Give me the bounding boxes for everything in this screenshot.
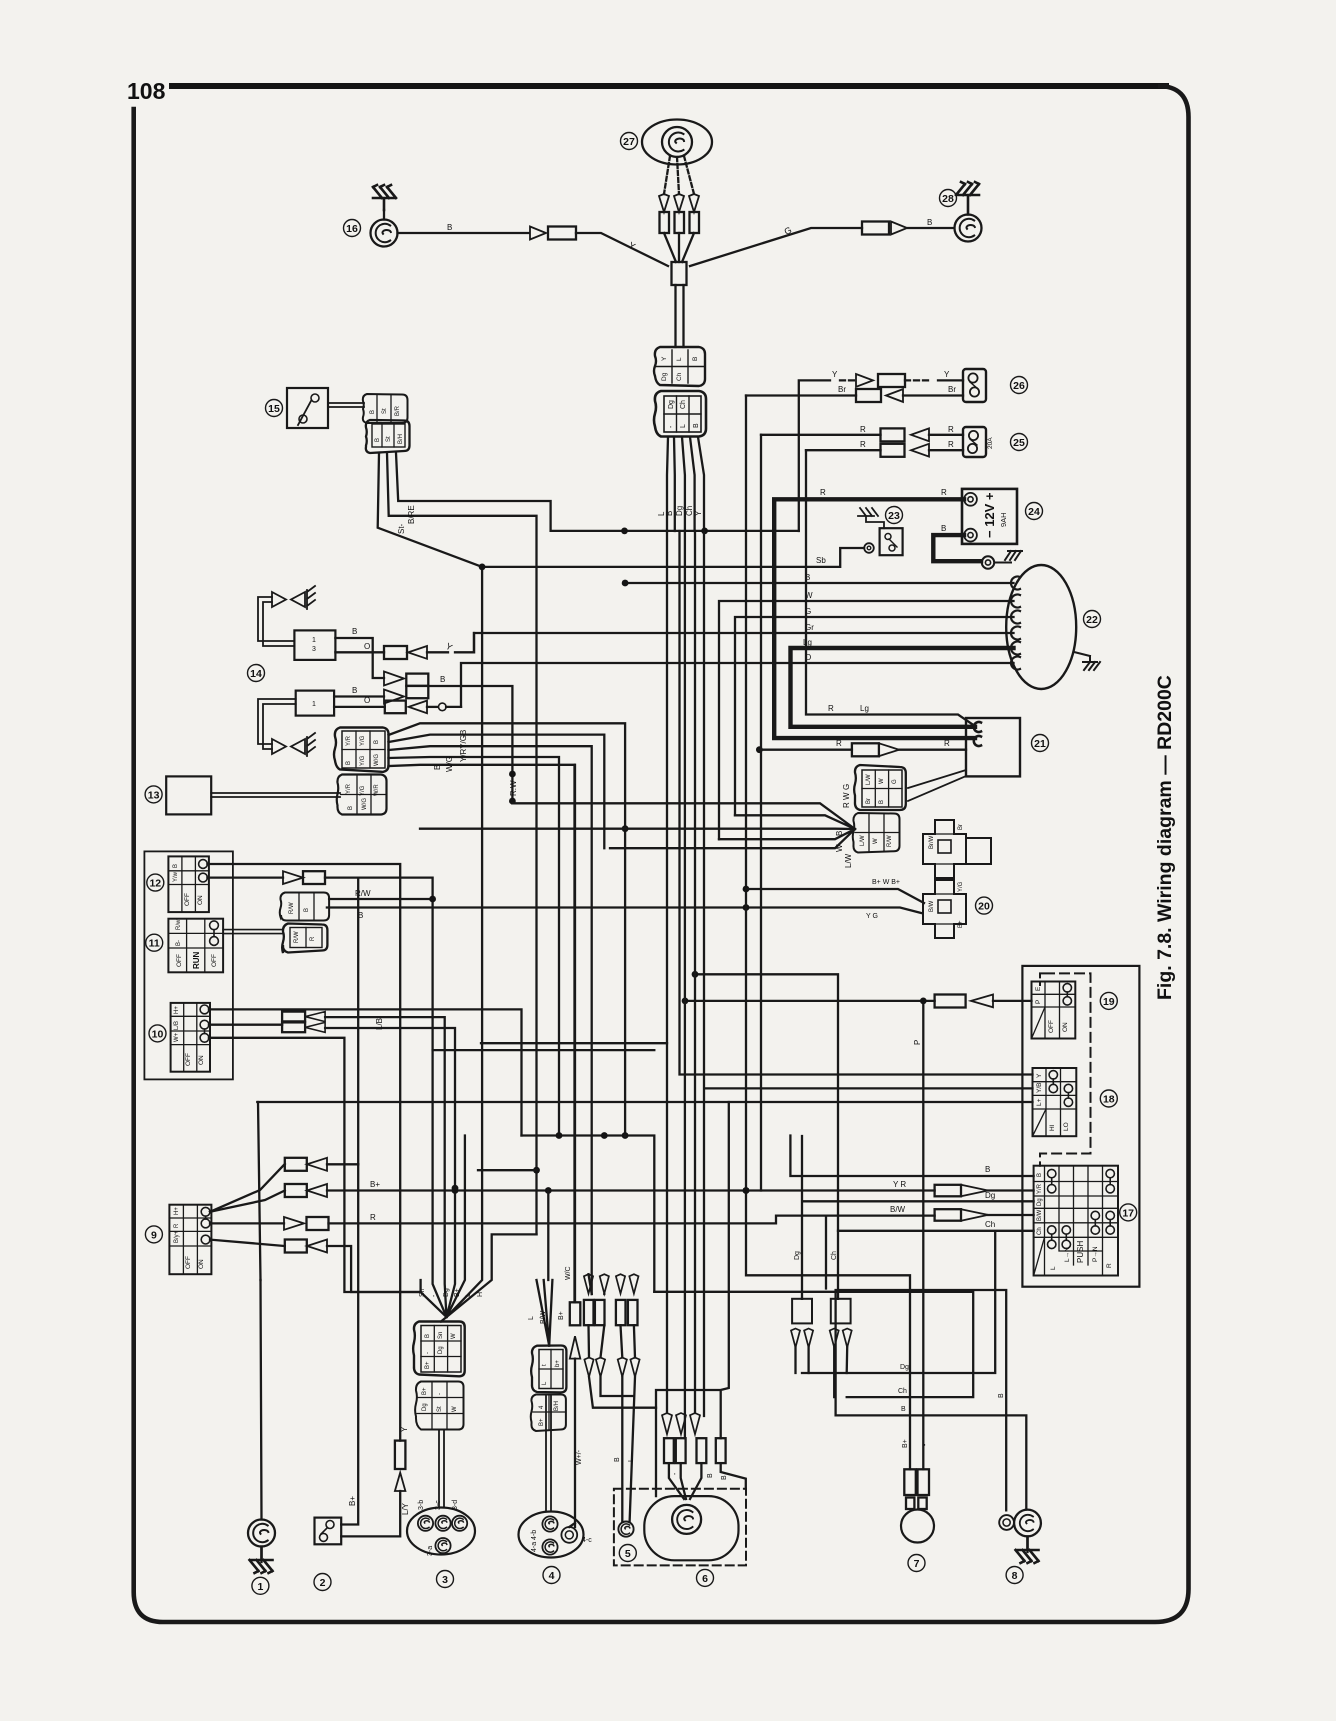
magneto lighting wire to dimmer lo bbox=[257, 1101, 1032, 1103]
svg-text:L: L bbox=[1050, 1266, 1057, 1270]
svg-text:t: t bbox=[542, 1364, 548, 1366]
svg-text:Y: Y bbox=[444, 641, 454, 653]
svg-text:Br/W: Br/W bbox=[929, 835, 935, 849]
svg-text:OFF: OFF bbox=[184, 893, 191, 906]
svg-text:B: B bbox=[352, 686, 357, 695]
svg-text:W: W bbox=[879, 778, 885, 784]
lighting switch 19 bbox=[1032, 982, 1076, 1039]
14 box2 bracket to ground bbox=[258, 699, 315, 756]
svg-text:4: 4 bbox=[539, 1405, 545, 1409]
svg-text:Y/RY/GB: Y/RY/GB bbox=[459, 730, 468, 762]
svg-text:B/R: B/R bbox=[395, 405, 401, 416]
svg-text:8: 8 bbox=[1012, 1570, 1018, 1582]
svg-text:ON: ON bbox=[198, 1055, 205, 1065]
9 row1 tap on B+ line bbox=[357, 1163, 359, 1165]
svg-text:-: - bbox=[437, 1393, 443, 1395]
svg-text:Y: Y bbox=[1036, 1073, 1043, 1078]
svg-text:W/C: W/C bbox=[565, 1266, 572, 1280]
svg-text:L→N: L→N bbox=[1064, 1247, 1071, 1262]
connector T1 at 15 bbox=[363, 394, 408, 423]
svg-text:W+: W+ bbox=[174, 1032, 180, 1042]
9 connector row3 R bbox=[210, 1205, 935, 1230]
22 row wires: B W G Gr Lg O bbox=[461, 573, 1014, 839]
4 fan bbox=[528, 1191, 565, 1346]
svg-text:B+: B+ bbox=[902, 1439, 909, 1448]
svg-text:Br: Br bbox=[838, 385, 846, 394]
svg-text:OFF: OFF bbox=[1048, 1020, 1055, 1033]
tail harness Dg fuse bbox=[791, 1251, 813, 1373]
wire Ch tap to 17 bbox=[692, 971, 1034, 1231]
svg-text:1: 1 bbox=[257, 1581, 263, 1593]
flasher indicator fuse line Y to 26 bbox=[799, 370, 963, 531]
svg-text:OFF: OFF bbox=[185, 1256, 192, 1269]
svg-text:L/B: L/B bbox=[375, 1018, 384, 1030]
svg-text:Y/G: Y/G bbox=[958, 881, 964, 892]
svg-text:108: 108 bbox=[127, 78, 166, 104]
border frame bbox=[134, 86, 1189, 1622]
svg-text:ON: ON bbox=[1062, 1022, 1069, 1032]
svg-text:B/RE: B/RE bbox=[407, 505, 416, 524]
fan labels above 3 bbox=[419, 1288, 484, 1297]
fuse holder 25 bbox=[963, 427, 994, 457]
svg-text:16: 16 bbox=[346, 223, 358, 235]
svg-text:W: W bbox=[835, 844, 844, 852]
fuse line R2 to 25 bbox=[806, 440, 963, 457]
fan convergence into 3 upper connector bbox=[421, 1280, 447, 1322]
svg-text:R/W: R/W bbox=[289, 902, 295, 914]
dimmer switch 18 bbox=[1033, 1068, 1077, 1136]
svg-text:St: St bbox=[437, 1406, 443, 1412]
bullet pairs above 5/6 bbox=[584, 1274, 639, 1325]
svg-text:B+: B+ bbox=[454, 1288, 461, 1297]
svg-text:G: G bbox=[892, 779, 898, 784]
wire Dg tap to 19 fuse bbox=[682, 995, 1032, 1008]
svg-text:Dg: Dg bbox=[438, 1346, 444, 1354]
svg-text:3: 3 bbox=[442, 1574, 448, 1586]
svg-text:H+: H+ bbox=[174, 1207, 180, 1215]
svg-text:19: 19 bbox=[1103, 996, 1115, 1008]
svg-text:B/W: B/W bbox=[1037, 1209, 1043, 1221]
svg-text:R: R bbox=[860, 440, 866, 449]
headlamp switch 10 bbox=[171, 1003, 210, 1072]
svg-text:23: 23 bbox=[888, 510, 900, 522]
svg-text:E: E bbox=[1035, 986, 1042, 991]
svg-text:Dg: Dg bbox=[1037, 1198, 1043, 1206]
svg-text:Y/G: Y/G bbox=[360, 755, 366, 766]
svg-text:Br: Br bbox=[958, 824, 964, 830]
svg-text:OFF: OFF bbox=[185, 1053, 192, 1066]
C1 fan wires right bbox=[389, 723, 626, 1302]
magneto / CDI unit 22 bbox=[1006, 565, 1100, 689]
contact breaker 4 bbox=[519, 1512, 593, 1558]
svg-text:26: 26 bbox=[1013, 380, 1025, 392]
svg-text:L/W: L/W bbox=[866, 774, 872, 785]
svg-text:ON: ON bbox=[197, 895, 204, 905]
svg-text:Ch: Ch bbox=[898, 1388, 907, 1395]
svg-text:3-d: 3-d bbox=[452, 1500, 459, 1510]
svg-text:Br: Br bbox=[948, 385, 956, 394]
rectifier 21 bbox=[908, 718, 1020, 801]
svg-text:-: - bbox=[668, 425, 675, 428]
svg-text:B: B bbox=[998, 1393, 1005, 1398]
vertical feeds misc bbox=[825, 1216, 827, 1289]
wire 16 to loom bbox=[398, 223, 669, 266]
svg-text:R: R bbox=[944, 739, 950, 748]
svg-text:25: 25 bbox=[1013, 437, 1025, 449]
svg-text:H: H bbox=[477, 1292, 484, 1297]
svg-text:B+: B+ bbox=[539, 1418, 545, 1426]
speedometer assembly 6 dashed box bbox=[614, 1489, 746, 1566]
R2 thin wire to 21 bbox=[806, 450, 972, 724]
svg-text:B: B bbox=[721, 1475, 728, 1480]
engine stop switch 11 bbox=[168, 919, 223, 973]
speedometer housing oval bbox=[644, 1496, 738, 1560]
svg-text:Ch: Ch bbox=[831, 1251, 838, 1260]
flasher relay 14 box2 bbox=[296, 691, 334, 716]
svg-text:Y/R: Y/R bbox=[346, 783, 352, 794]
svg-text:Ch: Ch bbox=[685, 506, 694, 516]
svg-text:B: B bbox=[879, 800, 885, 804]
svg-text:B/H: B/H bbox=[398, 434, 404, 444]
svg-text:Y/w: Y/w bbox=[173, 871, 179, 882]
svg-text:L/Y: L/Y bbox=[401, 1502, 410, 1515]
svg-text:Dg: Dg bbox=[675, 506, 684, 516]
svg-text:St: St bbox=[386, 436, 392, 442]
svg-text:B/W: B/W bbox=[890, 1205, 906, 1214]
svg-text:R: R bbox=[836, 739, 842, 748]
svg-text:24: 24 bbox=[1028, 506, 1040, 518]
svg-text:11: 11 bbox=[149, 938, 160, 950]
svg-text:Dg: Dg bbox=[794, 1251, 801, 1260]
svg-text:Lg: Lg bbox=[860, 704, 869, 713]
rear harness runs bbox=[802, 1232, 995, 1373]
12 wire1 L/Y down to switch 2 bbox=[207, 864, 410, 1536]
fan into lower connector bbox=[420, 780, 855, 868]
svg-text:St-: St- bbox=[397, 523, 406, 534]
svg-text:W/G: W/G bbox=[362, 798, 368, 810]
svg-text:13: 13 bbox=[148, 789, 160, 801]
double bullet block bbox=[384, 672, 516, 805]
svg-text:L/B: L/B bbox=[174, 1021, 180, 1030]
svg-text:R: R bbox=[948, 425, 954, 434]
svg-text:4-a 4-b: 4-a 4-b bbox=[531, 1530, 538, 1552]
svg-text:L+: L+ bbox=[1036, 1098, 1043, 1106]
harness connector A2 bbox=[654, 391, 706, 437]
svg-text:B: B bbox=[614, 1457, 621, 1462]
number plate lamp 8 bbox=[999, 1510, 1041, 1563]
svg-text:Y/G: Y/G bbox=[360, 785, 366, 796]
svg-text:B: B bbox=[375, 438, 381, 442]
wires down from T2: St- and B/RE runs bbox=[378, 453, 482, 567]
svg-text:4-c: 4-c bbox=[582, 1537, 592, 1544]
svg-text:R.W: R.W bbox=[509, 780, 518, 796]
fuse on B/W line bbox=[935, 1209, 1034, 1221]
svg-text:B: B bbox=[707, 1473, 714, 1478]
svg-text:B+: B+ bbox=[958, 920, 964, 928]
svg-text:6: 6 bbox=[702, 1573, 708, 1585]
svg-text:b+: b+ bbox=[555, 1360, 561, 1367]
svg-text:Dg: Dg bbox=[985, 1191, 995, 1200]
svg-text:R: R bbox=[1106, 1263, 1113, 1268]
svg-text:OFF: OFF bbox=[211, 954, 218, 967]
svg-text:B: B bbox=[173, 864, 179, 868]
battery positive thick R wire bbox=[774, 499, 975, 738]
main switch 12 bbox=[168, 856, 209, 912]
svg-text:Ch: Ch bbox=[676, 372, 683, 381]
svg-text:Y: Y bbox=[400, 1426, 409, 1432]
main fuse line to 21 bbox=[756, 739, 966, 756]
svg-text:O: O bbox=[364, 642, 370, 651]
9 connector row4 bbox=[210, 1240, 421, 1293]
svg-text:− 12V +: − 12V + bbox=[982, 492, 997, 538]
svg-text:4: 4 bbox=[549, 1570, 555, 1582]
svg-text:OFF: OFF bbox=[176, 954, 183, 967]
handlebar switch outer box bbox=[1022, 966, 1139, 1287]
feed to lone bullet bbox=[656, 1102, 729, 1438]
svg-text:Dg: Dg bbox=[668, 400, 675, 409]
svg-text:W/G: W/G bbox=[374, 754, 380, 766]
svg-text:B: B bbox=[985, 1165, 990, 1174]
svg-text:Ch: Ch bbox=[680, 400, 687, 409]
svg-text:W: W bbox=[873, 838, 879, 844]
svg-text:B+: B+ bbox=[425, 1361, 431, 1369]
svg-text:B/W: B/W bbox=[540, 1310, 547, 1324]
svg-text:B: B bbox=[447, 223, 452, 232]
svg-text:W: W bbox=[452, 1406, 458, 1412]
svg-text:HI: HI bbox=[1049, 1124, 1056, 1131]
svg-text:B: B bbox=[346, 761, 352, 765]
svg-text:R: R bbox=[310, 936, 316, 941]
svg-text:W: W bbox=[451, 1333, 457, 1339]
horizontal bus 1135 bbox=[522, 1132, 655, 1292]
flasher relay 14 box1 bbox=[294, 630, 335, 660]
svg-text:Fig. 7.8. Wiring diagram — RD2: Fig. 7.8. Wiring diagram — RD200C bbox=[1154, 675, 1176, 1000]
illumination bullet cluster inside 6 bbox=[662, 1413, 746, 1499]
connector grid at 21 bbox=[854, 765, 906, 810]
svg-text:B+: B+ bbox=[348, 1496, 357, 1506]
connector RW1 bbox=[280, 893, 329, 921]
svg-text:Dg: Dg bbox=[443, 1288, 450, 1297]
svg-text:1: 1 bbox=[312, 637, 316, 644]
svg-text:7: 7 bbox=[914, 1558, 920, 1570]
svg-text:R W: R W bbox=[842, 792, 851, 808]
svg-text:Lg: Lg bbox=[803, 638, 812, 647]
horn / winker switch 17 bbox=[1034, 1166, 1118, 1276]
svg-text:17: 17 bbox=[1122, 1207, 1134, 1219]
svg-text:Dg: Dg bbox=[900, 1364, 909, 1371]
svg-text:O: O bbox=[364, 696, 370, 705]
svg-text:W+/-: W+/- bbox=[576, 1449, 583, 1465]
3 connector lower bbox=[415, 1382, 463, 1430]
10 output wires bbox=[209, 1009, 522, 1317]
loom B to dimmer bbox=[680, 531, 1033, 1075]
svg-text:B+ W B+: B+ W B+ bbox=[872, 879, 900, 886]
connector C2 bbox=[337, 775, 387, 815]
flasher line Br to 26 bbox=[746, 385, 963, 402]
3 connector upper bbox=[413, 1322, 465, 1377]
svg-text:B: B bbox=[693, 423, 700, 428]
svg-text:P: P bbox=[913, 1040, 922, 1045]
stop lamp bulb 7 bbox=[901, 1439, 934, 1542]
4 connector lower bbox=[531, 1395, 566, 1432]
svg-text:L: L bbox=[676, 357, 683, 361]
svg-text:B: B bbox=[374, 740, 380, 744]
svg-text:Dg: Dg bbox=[422, 1403, 428, 1411]
svg-text:G: G bbox=[842, 784, 851, 790]
wire 28 to loom bbox=[690, 218, 954, 266]
svg-text:2: 2 bbox=[320, 1577, 326, 1589]
svg-text:B: B bbox=[304, 908, 310, 912]
12 wire2 with bullet bbox=[207, 871, 446, 1317]
svg-text:R: R bbox=[828, 704, 834, 713]
svg-text:B+: B+ bbox=[422, 1387, 428, 1395]
starter relay 23 bbox=[858, 508, 903, 555]
svg-text:22: 22 bbox=[1086, 614, 1098, 626]
loom Y to dimmer bbox=[704, 531, 1033, 1416]
P wire down to horn bbox=[913, 998, 927, 1470]
svg-text:18: 18 bbox=[1103, 1094, 1115, 1106]
svg-text:R: R bbox=[820, 488, 826, 497]
svg-text:B-: B- bbox=[176, 940, 182, 946]
svg-text:Dg: Dg bbox=[661, 372, 668, 381]
svg-text:Ch: Ch bbox=[1037, 1227, 1043, 1235]
svg-text:St: St bbox=[382, 408, 388, 414]
top rule bbox=[169, 83, 1169, 89]
svg-text:B: B bbox=[665, 511, 674, 516]
battery 24 bbox=[962, 489, 1017, 544]
svg-text:10: 10 bbox=[152, 1028, 164, 1040]
B wire bus right bbox=[790, 1136, 1033, 1177]
svg-text:B/y+: B/y+ bbox=[174, 1230, 180, 1243]
brake stop switch 15 bbox=[287, 388, 328, 428]
svg-text:15: 15 bbox=[268, 403, 280, 415]
svg-text:14: 14 bbox=[250, 668, 262, 680]
svg-text:L/W: L/W bbox=[860, 835, 866, 846]
svg-text:B: B bbox=[927, 218, 932, 227]
left switch outer box 12-11-10 bbox=[144, 851, 233, 1079]
svg-text:B/H: B/H bbox=[554, 1401, 560, 1411]
connector below 21 grid bbox=[853, 813, 900, 853]
svg-text:L: L bbox=[542, 1381, 548, 1385]
14 box1 bracket to ground bbox=[258, 586, 315, 646]
svg-text:R/W: R/W bbox=[887, 835, 893, 847]
second tier bullets bbox=[584, 1358, 639, 1377]
svg-text:L: L bbox=[465, 1293, 472, 1297]
svg-text:Y: Y bbox=[661, 356, 668, 361]
svg-text:L: L bbox=[628, 1458, 635, 1462]
14 box2 output wires bbox=[334, 686, 461, 713]
tail lamp 28 bbox=[955, 182, 982, 242]
connector C1 bbox=[334, 728, 389, 772]
svg-text:Y/B: Y/B bbox=[1036, 1083, 1043, 1093]
pilot lamp 16 bbox=[371, 185, 398, 247]
svg-text:-: - bbox=[672, 1472, 679, 1475]
svg-text:-: - bbox=[425, 1352, 431, 1354]
svg-text:B: B bbox=[348, 806, 354, 810]
neutral switch 1 bbox=[248, 1280, 275, 1573]
svg-text:Ch: Ch bbox=[985, 1220, 995, 1229]
svg-text:20: 20 bbox=[978, 901, 990, 913]
connector T2 at 15 bbox=[366, 420, 410, 453]
svg-text:21: 21 bbox=[1034, 738, 1046, 750]
svg-text:28: 28 bbox=[942, 193, 954, 205]
svg-text:W/G: W/G bbox=[445, 756, 454, 772]
crossing horizontals upper mesh bbox=[433, 1043, 667, 1050]
long vertical x746 bbox=[743, 396, 910, 1470]
svg-text:Sn: Sn bbox=[438, 1332, 444, 1339]
ignition switch unit 13 bbox=[166, 776, 340, 814]
svg-text:Y G: Y G bbox=[866, 913, 878, 920]
svg-text:B/W: B/W bbox=[929, 900, 935, 912]
svg-text:RUN: RUN bbox=[192, 951, 201, 969]
14 box1 output wires bbox=[335, 627, 474, 678]
svg-text:L/W: L/W bbox=[844, 853, 853, 868]
loom Ch down to 6 bbox=[694, 531, 696, 1413]
headlamp leads with bullet connectors bbox=[659, 156, 699, 262]
dashed link box bbox=[1040, 973, 1091, 1165]
alternator 3 bbox=[407, 1500, 475, 1556]
svg-text:P: P bbox=[1035, 1000, 1042, 1004]
loom fan-out 5 wires bbox=[657, 437, 704, 531]
svg-text:12: 12 bbox=[149, 878, 161, 890]
main harness loom bbox=[672, 262, 687, 347]
svg-text:B: B bbox=[352, 627, 357, 636]
svg-text:Br: Br bbox=[866, 798, 872, 804]
svg-text:9: 9 bbox=[151, 1229, 157, 1241]
svg-text:B: B bbox=[692, 357, 699, 361]
svg-text:Y R: Y R bbox=[893, 1180, 906, 1189]
svg-text:R/W: R/W bbox=[294, 931, 300, 943]
headlamp fuse line R1 to 25 bbox=[761, 425, 963, 441]
label 14 bbox=[248, 665, 265, 682]
svg-text:B: B bbox=[941, 524, 946, 533]
svg-text:Y/R: Y/R bbox=[346, 735, 352, 746]
harness connector A1 bbox=[654, 347, 705, 386]
svg-text:Y/G: Y/G bbox=[360, 735, 366, 746]
svg-text:B: B bbox=[370, 410, 376, 414]
svg-text:Y: Y bbox=[944, 370, 950, 379]
svg-text:H+: H+ bbox=[174, 1006, 180, 1014]
connector RW2 bbox=[282, 924, 327, 954]
svg-text:3: 3 bbox=[312, 646, 316, 653]
fuse on Y/R line bbox=[743, 1180, 1034, 1196]
svg-text:Y/R: Y/R bbox=[1037, 1183, 1043, 1194]
Dg row into 17 bbox=[802, 1136, 1034, 1299]
svg-text:B+: B+ bbox=[558, 1311, 565, 1320]
svg-text:B: B bbox=[440, 675, 445, 684]
tier wiring bbox=[589, 1325, 657, 1522]
svg-text:W/R: W/R bbox=[374, 784, 380, 796]
svg-text:B+: B+ bbox=[370, 1180, 380, 1189]
label 27 bbox=[621, 133, 638, 150]
svg-text:L: L bbox=[680, 424, 687, 428]
svg-text:27: 27 bbox=[623, 136, 635, 148]
winker switch 9 bbox=[169, 1205, 211, 1275]
svg-text:B: B bbox=[425, 1334, 431, 1338]
svg-text:P→N: P→N bbox=[1092, 1246, 1099, 1262]
svg-text:9AH: 9AH bbox=[999, 512, 1008, 527]
svg-text:ON: ON bbox=[198, 1259, 205, 1269]
svg-text:R/w: R/w bbox=[176, 919, 182, 930]
svg-text:R: R bbox=[941, 488, 947, 497]
svg-text:B: B bbox=[901, 1406, 906, 1413]
svg-text:R: R bbox=[860, 425, 866, 434]
4 connector upper bbox=[531, 1346, 566, 1393]
cross connector 20 upper bbox=[923, 820, 991, 878]
svg-text:5: 5 bbox=[625, 1548, 631, 1560]
headlamp unit 27 bbox=[642, 120, 712, 165]
svg-text:Y: Y bbox=[694, 510, 703, 516]
